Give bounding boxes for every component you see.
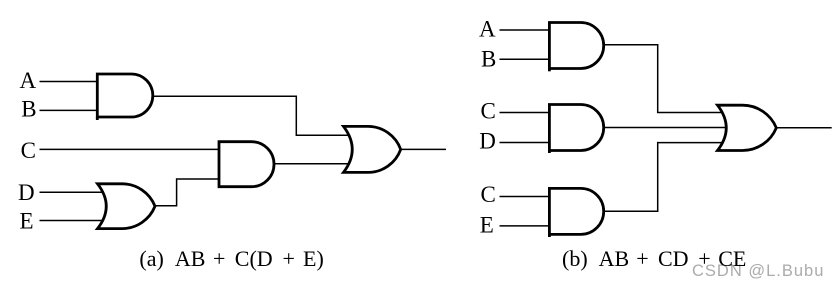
svg-text:C: C [481,99,496,124]
svg-text:B: B [21,97,36,122]
svg-text:C: C [21,138,36,163]
svg-text:E: E [480,212,494,237]
svg-text:A: A [479,16,496,41]
svg-text:A: A [20,68,37,93]
svg-text:E: E [20,208,34,233]
svg-text:D: D [479,128,496,153]
svg-text:CSDN @L.Bubu: CSDN @L.Bubu [692,262,824,280]
svg-text:C: C [481,182,496,207]
svg-text:D: D [18,180,35,205]
svg-text:B: B [481,47,496,72]
